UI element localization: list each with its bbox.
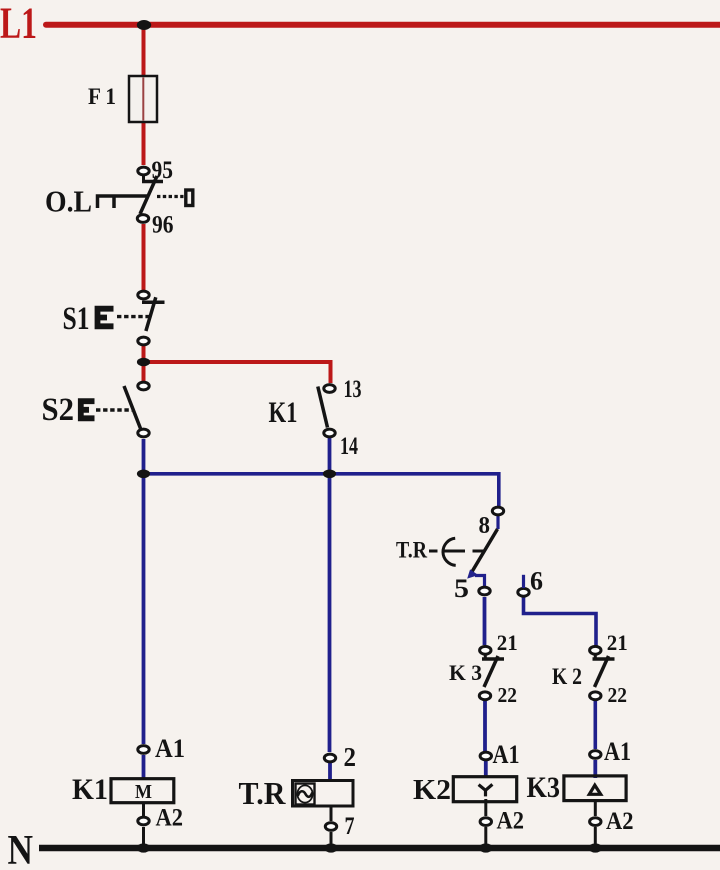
svg-text:A2: A2 (606, 808, 634, 835)
svg-text:22: 22 (608, 683, 628, 707)
svg-text:2: 2 (344, 742, 357, 772)
svg-text:5: 5 (454, 573, 469, 603)
svg-text:T.R: T.R (396, 538, 427, 563)
svg-text:21: 21 (607, 630, 628, 655)
svg-text:S1: S1 (63, 301, 90, 337)
svg-text:K 3: K 3 (449, 660, 482, 685)
svg-text:K1: K1 (72, 773, 108, 806)
svg-text:K3: K3 (527, 771, 561, 804)
svg-text:T.R: T.R (239, 775, 287, 811)
svg-text:K 2: K 2 (552, 664, 582, 689)
svg-text:22: 22 (498, 683, 518, 707)
svg-text:A2: A2 (156, 805, 184, 832)
svg-text:13: 13 (344, 374, 362, 403)
svg-text:A1: A1 (604, 737, 631, 766)
svg-text:8: 8 (479, 513, 491, 539)
svg-text:S2: S2 (42, 392, 75, 428)
svg-text:95: 95 (152, 157, 174, 184)
svg-text:A1: A1 (155, 734, 185, 763)
svg-text:6: 6 (530, 567, 543, 596)
svg-text:F 1: F 1 (88, 84, 116, 109)
svg-text:O.L: O.L (45, 184, 92, 219)
svg-text:M: M (135, 781, 152, 803)
svg-text:A2: A2 (497, 808, 525, 835)
svg-text:7: 7 (345, 813, 355, 840)
svg-text:21: 21 (497, 630, 518, 655)
svg-text:K2: K2 (413, 774, 451, 806)
svg-text:14: 14 (340, 431, 358, 460)
svg-text:96: 96 (152, 212, 174, 239)
svg-text:L1: L1 (0, 0, 37, 48)
svg-text:A1: A1 (493, 740, 520, 769)
svg-text:K1: K1 (269, 396, 298, 429)
svg-text:N: N (8, 828, 34, 870)
